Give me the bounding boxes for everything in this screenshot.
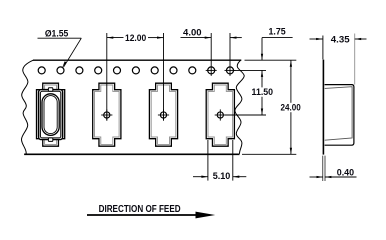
sprocket hole 3 bbox=[76, 67, 83, 74]
pocket P2 outline bbox=[93, 83, 121, 146]
dimension 4.35 bbox=[310, 34, 367, 85]
side view pocket bump outer bbox=[325, 85, 354, 146]
pocket P3 outline bbox=[149, 83, 177, 146]
svg-text:4.35: 4.35 bbox=[331, 34, 350, 44]
sprocket hole 4 bbox=[95, 67, 102, 74]
tape left break line bbox=[21, 60, 33, 154]
pocket P2 center mark bbox=[101, 109, 112, 120]
svg-text:DIRECTION OF FEED: DIRECTION OF FEED bbox=[99, 204, 181, 215]
svg-text:1.75: 1.75 bbox=[269, 27, 286, 37]
sprocket hole 10 with center mark bbox=[206, 67, 217, 74]
tape bottom edge bbox=[24, 153, 239, 155]
sprocket hole 1 bbox=[38, 67, 45, 74]
sprocket hole 2 bbox=[57, 67, 64, 74]
side view tape bbox=[322, 60, 324, 155]
pocket centerline extension bbox=[225, 114, 266, 116]
crystal component body in P1 bbox=[39, 90, 63, 140]
pocket P1 outline bbox=[37, 83, 65, 146]
sprocket hole 8 bbox=[170, 67, 177, 74]
pocket P3 center mark bbox=[158, 109, 169, 120]
tape right break line bbox=[235, 60, 244, 154]
svg-text:5.10: 5.10 bbox=[213, 171, 231, 181]
crystal bottom tab bbox=[48, 138, 52, 142]
dimension 0.40 bbox=[310, 156, 357, 181]
sprocket hole 5 bbox=[114, 67, 121, 74]
sprocket hole 6 bbox=[132, 67, 139, 74]
tape top edge extension bbox=[245, 59, 297, 61]
dimension 5.10 bbox=[193, 140, 246, 181]
svg-text:12.00: 12.00 bbox=[125, 33, 146, 43]
direction of feed arrow bbox=[87, 212, 215, 219]
dimension 4.00 bbox=[181, 27, 242, 76]
pocket P4 outline bbox=[206, 83, 234, 146]
pocket P4 center mark bbox=[215, 109, 226, 120]
svg-text:24.00: 24.00 bbox=[281, 103, 301, 113]
dimension 11.50 bbox=[252, 70, 274, 115]
svg-text:Ø1.55: Ø1.55 bbox=[45, 28, 69, 39]
tape bottom edge extension bbox=[242, 153, 296, 155]
dimension 1.75 bbox=[261, 27, 293, 61]
tape top edge bbox=[33, 59, 241, 61]
dimension 24.00 bbox=[281, 60, 301, 154]
sprocket hole 7 bbox=[151, 67, 158, 74]
side view pocket bump inner bbox=[325, 87, 352, 141]
sprocket hole 11 with center mark bbox=[225, 67, 236, 74]
svg-text:11.50: 11.50 bbox=[252, 87, 274, 97]
hole centerline extension bbox=[234, 69, 266, 71]
svg-text:4.00: 4.00 bbox=[183, 27, 202, 37]
dimension 12.00 bbox=[107, 33, 164, 121]
crystal top tab bbox=[48, 88, 52, 92]
svg-text:0.40: 0.40 bbox=[337, 167, 354, 177]
dimension 1.55 leader bbox=[38, 28, 82, 67]
crystal lid (stadium) bbox=[42, 94, 59, 136]
sprocket hole 9 bbox=[189, 67, 196, 74]
